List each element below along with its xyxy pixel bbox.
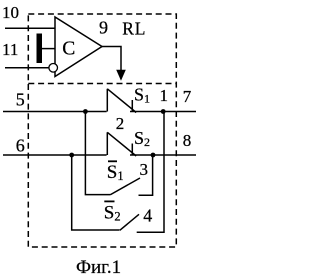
switch S1 blade [107,89,136,113]
svg-text:C: C [62,39,75,60]
wire 6 left segment [3,154,107,156]
wire: node A down to switch S1bar [85,112,110,195]
control arrow head [116,70,126,81]
section divider between comparator and switch block (dashed) [28,83,176,85]
svg-text:RL: RL [122,19,146,39]
switch S2bar blade (open) [120,214,139,230]
wire: plate to comparator middle input [42,48,55,50]
wire 5 right segment to terminal 7 [130,111,196,113]
wire 5 left segment [3,111,107,113]
svg-text:5: 5 [16,90,25,110]
svg-text:11: 11 [2,40,18,59]
wire: input 11 [5,67,49,69]
wire: S1bar contact to node D [139,155,153,195]
svg-text:8: 8 [183,131,192,150]
svg-text:2: 2 [116,114,125,133]
svg-text:10: 10 [2,3,19,22]
junction node B on wire 5 right [161,109,166,114]
wire: input 10 [5,27,56,29]
switch S1 pivot riser [106,89,108,112]
svg-text:1: 1 [160,86,169,105]
junction node D on wire 6 right [151,153,156,158]
wire: comparator output 9 [102,47,121,71]
wire 6 right segment to terminal 8 [130,154,196,156]
label: switch S2bar overline [104,200,114,202]
junction node A on wire 5 [83,109,88,114]
switch S2 pivot riser [106,132,108,155]
junction node C on wire 6 [69,153,74,158]
inversion bubble on input 11 [49,64,58,73]
svg-text:Фиг.1: Фиг.1 [76,257,121,278]
wire: S2bar contact to node B [137,112,164,233]
svg-text:7: 7 [183,87,192,106]
device boundary (dashed) [28,14,176,247]
svg-text:9: 9 [99,18,108,38]
switch S1 fixed contact tick [131,100,133,112]
svg-text:4: 4 [143,205,152,225]
switch S2 fixed contact tick [131,144,133,156]
svg-text:3: 3 [140,160,149,179]
switch S1bar blade (open) [111,178,141,195]
switch S2 blade [107,132,136,156]
comparator U1 triangle [55,17,102,77]
sensor electrode plate [37,34,43,64]
wire: node C down to switch S2bar [72,155,120,230]
label: switch S1bar overline [108,160,117,162]
svg-text:6: 6 [16,136,25,156]
